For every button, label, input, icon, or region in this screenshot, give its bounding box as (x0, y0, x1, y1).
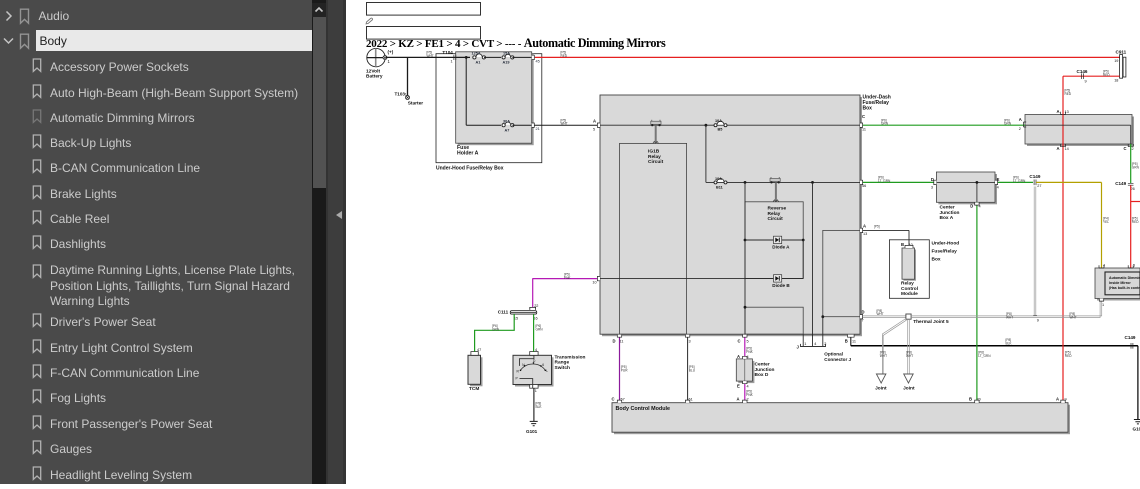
svg-text:Body Control Module: Body Control Module (616, 406, 671, 412)
svg-text:A: A (1057, 109, 1060, 114)
pin E4 CJB-A (997, 177, 1000, 190)
node right box corner (821, 315, 826, 346)
wire green CJB-A to C149 27 (995, 176, 1033, 183)
pin D11 purple drop (612, 336, 629, 403)
pin bracket big box C5 (743, 335, 747, 338)
pin bracket relay module B10 (905, 245, 913, 248)
svg-text:C: C (1124, 146, 1127, 151)
svg-text:3: 3 (931, 185, 933, 189)
svg-text:C911: C911 (1116, 50, 1127, 55)
pin bracket CJB-D E4 (743, 381, 747, 384)
svg-text:PUR: PUR (621, 368, 628, 372)
svg-text:PNK: PNK (746, 393, 753, 397)
svg-text:C149: C149 (1125, 335, 1136, 340)
wire magenta TRS feed (532, 273, 600, 308)
lower-left inner box (745, 307, 803, 334)
svg-text:RED: RED (1103, 73, 1110, 77)
pin A2 top-right box left (1019, 117, 1026, 131)
wire green C111 to TCM (475, 314, 515, 352)
pin bracket CJB-A E4 (995, 180, 998, 184)
svg-text:Holder A: Holder A (457, 150, 479, 156)
joint arrow 1 (875, 374, 887, 391)
svg-text:A: A (863, 223, 866, 228)
wire white optional stub 9 (1033, 187, 1039, 323)
wire label P6 GRN 2 (1004, 118, 1012, 125)
thermal joint 5 (906, 314, 949, 325)
pin bracket big box B11 (848, 335, 855, 338)
svg-text:3: 3 (689, 340, 691, 344)
svg-text:Joint: Joint (903, 385, 915, 391)
svg-text:1: 1 (1102, 303, 1104, 307)
wire A7 to big box (512, 125, 600, 131)
wire ground bus black (851, 346, 1138, 420)
svg-text:1: 1 (535, 389, 537, 393)
pin bracket big box D11 (617, 335, 621, 338)
node lower-left box (744, 306, 747, 309)
connector C149 27 (1029, 174, 1041, 188)
svg-text:2022 > KZ > FE1 > 4 > CVT > --: 2022 > KZ > FE1 > 4 > CVT > --- - Automa… (366, 36, 666, 50)
svg-text:10: 10 (592, 281, 596, 285)
pin bracket big box 46 (860, 180, 863, 184)
svg-text:B5: B5 (718, 128, 723, 132)
fuse A19 15A (502, 52, 514, 65)
wire lower-left box to pin 1 (803, 334, 806, 346)
ground G1 (1133, 420, 1140, 432)
wire green CJB-A down to BCM (969, 202, 991, 402)
fuse B5 10A (714, 119, 727, 132)
wire label P5 (427, 51, 434, 58)
pin D3 CJB-A (931, 177, 934, 190)
wire green IGN feed right (860, 114, 1025, 132)
svg-text:27: 27 (1037, 184, 1041, 188)
right inner box (823, 230, 860, 316)
node diode feed left (744, 181, 747, 336)
svg-text:Junction: Junction (755, 367, 775, 373)
diagram title (366, 36, 666, 50)
svg-text:Circuit: Circuit (768, 216, 784, 222)
wire ignition feed inside big box (600, 124, 860, 126)
svg-text:C149: C149 (1029, 174, 1040, 179)
pin C5 magenta drop (737, 336, 754, 359)
svg-text:1: 1 (388, 59, 391, 64)
connector C149 26 (1115, 181, 1135, 191)
svg-text:PNK: PNK (746, 350, 753, 354)
pin A14 under box (1057, 144, 1069, 151)
svg-text:A19: A19 (503, 61, 510, 65)
svg-text:WHT: WHT (1070, 315, 1077, 319)
wire inside top-right box (1025, 125, 1131, 144)
pin bracket big box A5 (597, 123, 600, 127)
svg-text:B11: B11 (716, 185, 723, 189)
wire label P5 RED (561, 51, 568, 58)
svg-text:30A: 30A (503, 119, 510, 123)
svg-text:Battery: Battery (366, 74, 383, 80)
reverse relay circuit inner box (745, 202, 803, 279)
svg-text:9: 9 (1037, 319, 1039, 323)
wire red return from C911 (1063, 76, 1120, 114)
svg-text:LT_GRN: LT_GRN (1013, 179, 1026, 183)
svg-text:6: 6 (542, 363, 544, 367)
connector T104 (442, 50, 455, 64)
svg-text:4: 4 (997, 185, 999, 189)
center junction box D (736, 359, 774, 383)
fuse holder A box (456, 52, 534, 157)
svg-text:B: B (845, 338, 848, 343)
svg-text:C111: C111 (498, 310, 509, 315)
pin bracket big box 3 (685, 335, 689, 338)
node B5 branch (705, 124, 708, 183)
wire label P5 RED lower (1065, 351, 1072, 358)
wire label P5 WHT (561, 118, 568, 125)
svg-text:1: 1 (804, 342, 806, 346)
starter terminal T103 (395, 92, 424, 107)
svg-text:B: B (901, 242, 904, 247)
diode B (772, 275, 790, 289)
svg-text:4: 4 (747, 385, 749, 389)
svg-text:BLU: BLU (689, 368, 696, 372)
fuse A7 30A (502, 119, 514, 132)
wire green to C149 26 (1131, 144, 1140, 183)
svg-text:Relay: Relay (901, 281, 914, 287)
wire diode A link (802, 240, 804, 279)
svg-text:YEL: YEL (1103, 220, 1109, 224)
svg-text:A: A (593, 119, 596, 124)
svg-text:GRN: GRN (1004, 122, 1012, 126)
svg-text:[P5]: [P5] (874, 224, 880, 228)
pin bracket big box A13 (860, 228, 863, 232)
svg-text:A: A (737, 397, 740, 402)
svg-text:12Volt: 12Volt (366, 68, 380, 74)
wire label P8 BLK (1006, 338, 1013, 345)
svg-text:RED: RED (1132, 220, 1139, 224)
svg-text:D: D (970, 204, 973, 209)
svg-text:Fuse/Relay: Fuse/Relay (932, 249, 958, 255)
svg-text:2: 2 (1019, 127, 1021, 131)
wire relay control feed (860, 223, 913, 248)
relay coil drop reverse (773, 182, 779, 201)
wire CJB-D to BCM magenta (737, 381, 754, 403)
svg-text:E: E (737, 384, 740, 389)
search input box 2 (367, 27, 481, 40)
node pin4 drop (811, 181, 814, 336)
TCM (468, 352, 483, 392)
svg-text:WHT: WHT (561, 122, 568, 126)
under-hood fuse/relay box 2 (relay control module housing) (889, 240, 959, 298)
pin bracket big box D7 (860, 315, 863, 319)
svg-text:GRN: GRN (1132, 165, 1140, 169)
svg-text:(Has built-in control: (Has built-in control (1109, 286, 1140, 290)
svg-text:IG1B: IG1B (648, 149, 660, 155)
wire fuse A19 to box edge (512, 57, 539, 63)
connector C146 (1077, 69, 1088, 84)
wire label P5 RED vert (1065, 89, 1072, 96)
svg-text:PNK: PNK (564, 276, 571, 280)
svg-text:Automatic Dimming: Automatic Dimming (1109, 276, 1140, 280)
svg-text:15A: 15A (503, 52, 510, 56)
connector C149 on ground bus (1125, 335, 1136, 349)
svg-text:21: 21 (536, 127, 540, 131)
ground G101 (526, 421, 538, 433)
relay coil drop IG1B (653, 125, 659, 143)
pin bracket big box 10 (597, 276, 600, 280)
svg-text:A: A (1019, 117, 1022, 122)
pin bracket BCM A2 (743, 400, 747, 403)
svg-text:Relay: Relay (648, 154, 661, 160)
svg-text:Center: Center (755, 362, 770, 368)
svg-text:WHT: WHT (877, 312, 884, 316)
svg-text:RED: RED (1065, 92, 1072, 96)
svg-text:1: 1 (405, 93, 407, 97)
svg-text:4: 4 (814, 342, 816, 346)
transmission range switch (513, 352, 585, 389)
svg-text:Starter: Starter (408, 101, 424, 107)
fuse B11 10A (714, 177, 727, 190)
svg-text:125A: 125A (472, 52, 481, 56)
svg-text:C: C (862, 114, 865, 119)
svg-text:GRN: GRN (881, 122, 889, 126)
svg-text:Reverse: Reverse (768, 206, 787, 212)
svg-text:Box: Box (863, 106, 873, 112)
svg-text:45: 45 (536, 59, 540, 63)
pin A9 BCM (1056, 397, 1067, 402)
svg-text:Diode B: Diode B (772, 283, 790, 288)
wire red main feed (535, 56, 1120, 58)
wire diode A row (744, 239, 805, 242)
pin bracket BCM A9 (1061, 400, 1065, 403)
svg-text:RED: RED (1065, 354, 1072, 358)
wire label P6 LT GRN (878, 176, 891, 183)
svg-text:G104: G104 (1133, 427, 1140, 432)
svg-text:Box A: Box A (940, 215, 954, 221)
battery 12Volt (366, 48, 394, 79)
relay control module (901, 248, 918, 297)
svg-text:GRN: GRN (492, 327, 500, 331)
wire battery to fuse holder (386, 56, 470, 58)
svg-text:GRN: GRN (536, 327, 544, 331)
pin bracket CJB-A D4 (975, 203, 979, 206)
wire green accessory right (860, 182, 936, 188)
svg-text:Inside Mirror: Inside Mirror (1109, 281, 1131, 285)
svg-text:D: D (613, 339, 616, 344)
fuse A1 125A (472, 52, 486, 65)
wire diode B row (600, 278, 803, 280)
wire white joint branch 2 (906, 319, 913, 374)
svg-text:Connector J: Connector J (824, 357, 851, 362)
wire label P5 RED c146 (1103, 70, 1110, 77)
svg-text:10A: 10A (715, 119, 722, 123)
svg-text:J: J (797, 345, 800, 350)
connector C111 (498, 307, 538, 320)
pin bracket BCM C57 (617, 400, 621, 403)
svg-text:Transmission: Transmission (555, 354, 586, 360)
svg-text:B: B (969, 397, 972, 402)
wire white mirror ground path (860, 309, 906, 323)
svg-text:WHT: WHT (427, 54, 434, 58)
wire inside CJB-A (936, 181, 995, 202)
svg-text:Box D: Box D (755, 372, 769, 378)
svg-text:BLK: BLK (536, 405, 543, 409)
svg-text:Joint: Joint (875, 385, 887, 391)
svg-text:A7: A7 (505, 129, 510, 133)
svg-text:G101: G101 (526, 429, 538, 434)
wire white joint branch 1 (880, 319, 907, 375)
svg-text:9: 9 (1085, 80, 1087, 84)
svg-text:13: 13 (1065, 110, 1069, 114)
svg-text:L: L (546, 369, 548, 373)
IG1B relay circuit inner box (620, 143, 687, 334)
wire between fuses (484, 56, 501, 58)
svg-text:19: 19 (1114, 59, 1118, 63)
svg-text:2: 2 (1132, 147, 1134, 151)
svg-text:Thermal Joint 5: Thermal Joint 5 (913, 319, 949, 325)
svg-text:1: 1 (451, 60, 453, 64)
wire red through box (1062, 115, 1064, 403)
svg-text:10A: 10A (715, 177, 722, 181)
body control module (612, 403, 1070, 435)
svg-text:Relay: Relay (768, 211, 781, 217)
svg-text:Under-Hood Fuse/Relay Box: Under-Hood Fuse/Relay Box (436, 166, 504, 172)
svg-text:Optional: Optional (824, 352, 843, 357)
pin bracket CJB-A D3 (934, 180, 937, 184)
wire accessory row (706, 181, 860, 183)
automatic dimming inside mirror box (1095, 268, 1140, 301)
svg-text:RED: RED (561, 54, 568, 58)
svg-text:BLK: BLK (1006, 341, 1013, 345)
wire label P6 GRN (881, 118, 889, 125)
svg-text:C: C (612, 397, 615, 402)
relay contact IG1B (651, 120, 661, 126)
svg-text:Junction: Junction (940, 210, 960, 216)
svg-text:Diode A: Diode A (772, 244, 790, 249)
under-dash fuse/relay box (main) (600, 95, 891, 337)
svg-text:4: 4 (535, 348, 537, 352)
svg-text:14: 14 (1065, 147, 1069, 151)
pin A13 top-right box (1057, 109, 1069, 115)
svg-text:A1: A1 (476, 61, 481, 65)
svg-text:WHT: WHT (906, 354, 913, 358)
svg-text:TCM: TCM (469, 386, 479, 392)
pencil icon (366, 18, 372, 24)
svg-text:WHT: WHT (1006, 315, 1013, 319)
wire TRS to ground (534, 388, 542, 421)
pin bracket CJB-D A4 (743, 356, 747, 359)
pin B11 ground path (845, 336, 856, 346)
svg-text:A: A (737, 354, 740, 359)
under-hood fuse/relay box outline (436, 54, 542, 172)
svg-text:C146: C146 (1077, 69, 1088, 74)
svg-text:LT_GRN: LT_GRN (978, 354, 991, 358)
pin bracket big box C11 (860, 123, 863, 127)
svg-text:47: 47 (477, 348, 481, 352)
svg-text:11: 11 (852, 339, 856, 343)
pin bracket fuse holder 45 (532, 55, 535, 59)
svg-text:LT_GRN: LT_GRN (878, 179, 891, 183)
optional connector J comb (797, 344, 852, 362)
svg-text:C149: C149 (1115, 181, 1126, 186)
pin 3 black drop (688, 336, 696, 403)
pin A 5 big box left (593, 119, 596, 132)
svg-text:11: 11 (862, 128, 866, 132)
pin bracket BCM 61 (685, 400, 689, 403)
top-right connector box (1025, 115, 1134, 147)
svg-text:D: D (862, 310, 865, 315)
pin C2 top-right box bottom (1124, 144, 1134, 151)
battery terminal (383, 56, 387, 60)
center junction box A (936, 172, 997, 221)
svg-text:T104: T104 (442, 50, 453, 55)
svg-text:5: 5 (747, 340, 749, 344)
diode A (772, 236, 790, 249)
svg-text:Under-Hood: Under-Hood (932, 241, 960, 247)
wire yellow to mirror (1036, 182, 1109, 268)
svg-text:Control: Control (901, 286, 918, 292)
svg-text:Range: Range (555, 360, 570, 366)
relay contact reverse (770, 177, 780, 183)
svg-text:Module: Module (901, 291, 918, 297)
joint arrow 2 (903, 374, 915, 391)
wire white to mirror pin 1 (911, 299, 1104, 319)
svg-text:Box: Box (932, 257, 941, 263)
pin bracket BCM B20 (975, 400, 979, 403)
node A7 branch (465, 56, 501, 125)
svg-text:Center: Center (940, 205, 955, 211)
svg-text:WHT: WHT (880, 354, 887, 358)
svg-text:C: C (738, 339, 741, 344)
svg-text:A: A (1057, 146, 1060, 151)
pin bracket fuse holder 21 (532, 123, 535, 127)
wire starter drop (407, 57, 409, 95)
wire red to mirror pin 5 (1128, 185, 1140, 268)
svg-text:18: 18 (1114, 78, 1118, 82)
wire green C111 to TRS (534, 314, 544, 352)
svg-text:Circuit: Circuit (648, 159, 664, 165)
svg-text:(+): (+) (388, 50, 394, 55)
svg-text:5: 5 (593, 128, 595, 132)
connector C911 (1114, 50, 1126, 83)
wire pin 4 stub (813, 334, 817, 346)
pin bracket mirror 1 (1099, 299, 1103, 302)
svg-text:13: 13 (863, 232, 867, 236)
svg-text:A: A (1056, 397, 1059, 402)
search input box 1 (367, 3, 481, 16)
svg-text:Switch: Switch (555, 365, 571, 371)
